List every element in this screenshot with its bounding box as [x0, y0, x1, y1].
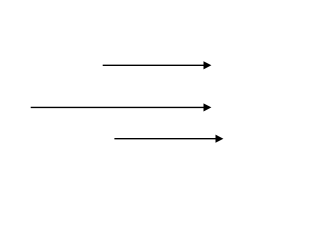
arrow A3 (bottom) [114, 135, 223, 143]
arrow A2 (middle) [31, 103, 212, 111]
arrow A1 (top) [103, 61, 212, 69]
